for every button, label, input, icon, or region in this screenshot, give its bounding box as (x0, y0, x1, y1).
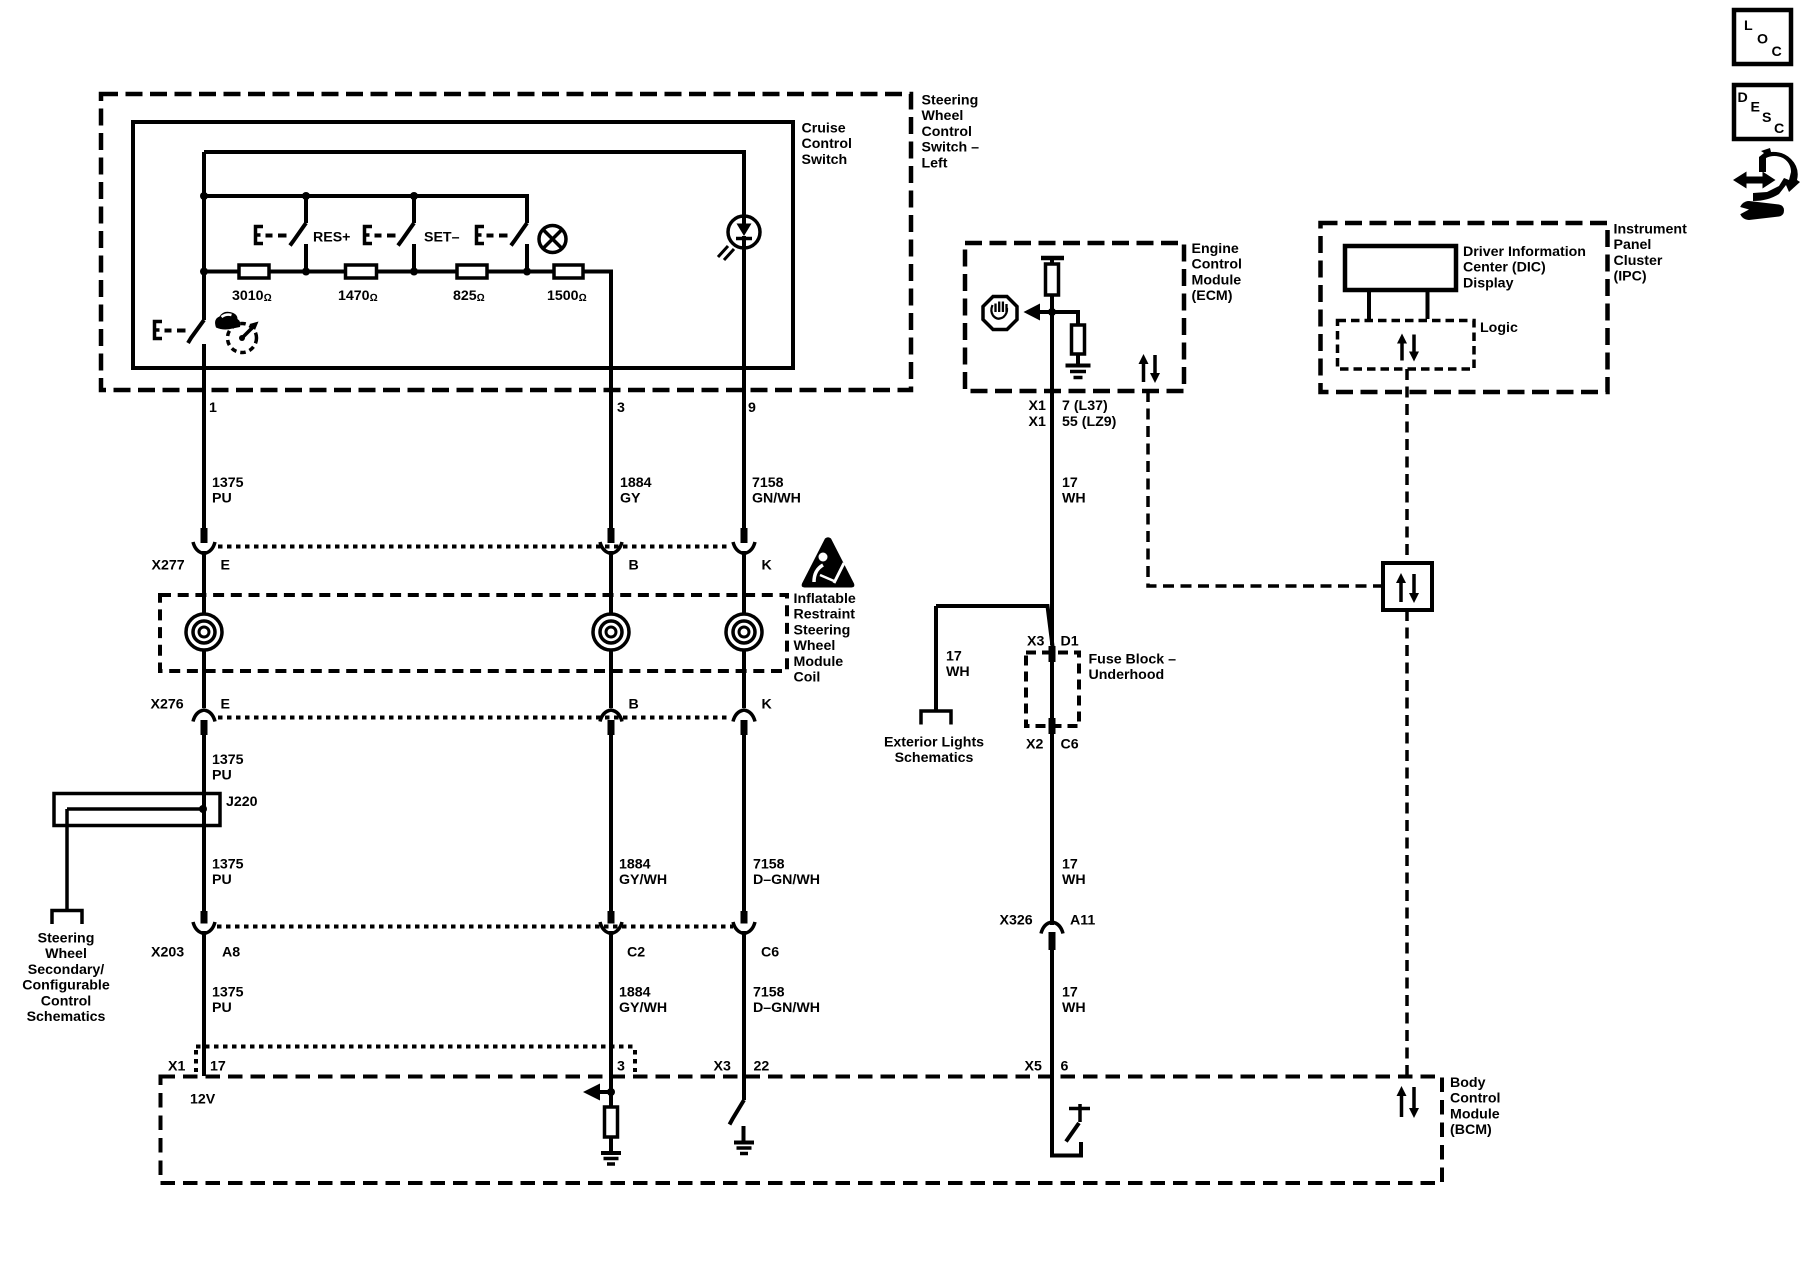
wire 1375 PU X203 to BCM (202, 931, 206, 1076)
svg-text:Exterior LightsSchematics: Exterior LightsSchematics (884, 735, 984, 767)
svg-text:K: K (762, 558, 773, 574)
svg-text:CruiseControlSwitch: CruiseControlSwitch (802, 121, 852, 168)
off-page reference to steering wheel controls (52, 911, 82, 925)
svg-text:9: 9 (748, 400, 756, 416)
svg-text:Fuse Block –Underhood: Fuse Block –Underhood (1089, 652, 1177, 684)
serial data arrows in logic box (1397, 334, 1419, 362)
coil B (clockspring) (593, 614, 629, 650)
cruise master switch (blade and pole) (188, 320, 204, 530)
switch SET- (drop, blade, pole) (398, 196, 414, 272)
wire into coil E (202, 551, 206, 614)
ground in BCM (601, 1137, 621, 1164)
wire 1884 GY/WH X276 to X203 (609, 735, 613, 912)
wire 7158 D-GN/WH X276 to X203 (742, 735, 746, 912)
resistor 1470 ohm (346, 265, 377, 278)
svg-text:J220: J220 (226, 794, 258, 810)
svg-text:E: E (221, 697, 230, 713)
serial data arrows in node box (1396, 573, 1419, 603)
signal arrow to stop symbol (1024, 304, 1053, 321)
wire 7158 D-GN/WH X203 to BCM (742, 931, 746, 1100)
switch RES+ (drop, blade, pole) (290, 196, 306, 272)
serial data node box (1383, 563, 1432, 610)
connector X277 terminal B (600, 528, 622, 554)
LED indicator (718, 216, 760, 392)
dashed box: Logic (1338, 321, 1475, 370)
dashed box: Steering Wheel Control Switch - Left (101, 94, 911, 390)
svg-text:12V: 12V (190, 1092, 216, 1108)
wire down to off-page reference (934, 606, 938, 711)
wire 17 WH fuse block to X326 (1050, 734, 1054, 925)
svg-text:7 (L37): 7 (L37) (1062, 398, 1108, 414)
svg-text:C6: C6 (761, 945, 779, 961)
connector X203 terminal A8 (193, 911, 215, 934)
connector X276 terminal K (733, 710, 755, 735)
svg-text:3: 3 (617, 1059, 625, 1075)
svg-text:RES+: RES+ (313, 230, 350, 246)
svg-text:22: 22 (754, 1059, 770, 1075)
dashed box: Instrument Panel Cluster (IPC) (1321, 223, 1608, 392)
switch to ground (BCM pin 22) (730, 1100, 745, 1125)
branch wire to exterior lights (936, 606, 1053, 650)
serial data arrows in BCM (1397, 1086, 1420, 1118)
connector X203 terminal C2 (600, 911, 622, 934)
serial data dashed line to BCM (1405, 610, 1409, 1076)
svg-text:X1: X1 (1029, 398, 1046, 414)
switch on/off E terminal glyph (477, 227, 508, 244)
splice pack J220 (54, 794, 220, 826)
wire branch from J220 (65, 809, 69, 910)
coil K (clockspring) (726, 614, 762, 650)
svg-text:55 (LZ9): 55 (LZ9) (1062, 414, 1117, 430)
navigation arrows and wrench icon (1733, 148, 1800, 220)
svg-text:X5: X5 (1025, 1059, 1042, 1075)
svg-text:B: B (629, 558, 639, 574)
serial data arrows in ECM (1139, 354, 1161, 383)
svg-text:X3: X3 (714, 1059, 731, 1075)
svg-text:C: C (1772, 44, 1782, 60)
connector X203 terminal C6 (733, 911, 755, 934)
connector line X203 (217, 925, 733, 929)
resistor 3010 ohm (239, 265, 269, 278)
switch RES+ E terminal glyph (256, 227, 287, 244)
svg-text:X277: X277 (152, 558, 185, 574)
lamp symbol (circle with X) (539, 226, 566, 253)
svg-text:6: 6 (1061, 1059, 1069, 1075)
connector line X277 (218, 545, 731, 549)
ground in ECM (1066, 366, 1091, 378)
svg-text:X276: X276 (151, 697, 184, 713)
dashed box: Body Control Module (BCM) (161, 1077, 1443, 1184)
dashed box: Engine Control Module (ECM) (965, 243, 1184, 391)
svg-text:X1: X1 (168, 1059, 185, 1075)
svg-text:C: C (1774, 121, 1784, 137)
connector X276 terminal E (193, 710, 215, 735)
connector X276 terminal B (600, 710, 622, 735)
svg-text:E: E (1751, 100, 1760, 116)
svg-text:X1: X1 (1029, 414, 1046, 430)
svg-text:17: 17 (210, 1059, 226, 1075)
svg-text:K: K (762, 697, 773, 713)
resistor 1500 ohm (554, 265, 583, 278)
branch resistor to ground in ECM (1052, 312, 1085, 364)
serial data dashed line from IPC logic (1405, 369, 1409, 563)
wire: switch bus (204, 196, 527, 223)
serial data dashed line from ECM (1148, 391, 1383, 586)
wire into coil K (742, 551, 746, 614)
svg-text:D1: D1 (1061, 634, 1079, 650)
svg-text:3: 3 (617, 400, 625, 416)
connector X277 terminal K (733, 528, 755, 554)
dashed box: steering wheel module coil (160, 595, 787, 671)
DIC display box (1345, 246, 1456, 290)
dashed box: Fuse Block - Underhood (1026, 653, 1079, 727)
DIC display pedestal (1369, 290, 1428, 319)
pull-up resistor in ECM (1046, 258, 1059, 312)
node: cruise request junction (1048, 308, 1056, 316)
svg-text:Logic: Logic (1480, 320, 1518, 336)
wire out of coil K (742, 650, 746, 708)
wire 1375 PU pin1 to X277 (202, 390, 206, 530)
svg-text:SET–: SET– (424, 230, 460, 246)
DESC navigation box (1734, 85, 1791, 139)
wire out of coil B (609, 650, 613, 708)
svg-text:A11: A11 (1070, 913, 1095, 929)
svg-text:E: E (221, 558, 230, 574)
switch X5-6 in BCM (1052, 1076, 1090, 1156)
svg-text:C6: C6 (1061, 737, 1079, 753)
wire into coil B (609, 551, 613, 614)
cruise master switch E terminal glyph (155, 322, 186, 339)
junction dots in cruise switch (200, 192, 531, 276)
wire: top feed inside cruise switch (204, 152, 744, 216)
svg-text:1: 1 (209, 400, 217, 416)
cruise control icon (car over speedometer) (215, 312, 258, 353)
signal arrow to exterior lights (BCM pin 3) (583, 1084, 615, 1101)
svg-text:A8: A8 (222, 945, 240, 961)
terminal X2 C6 of fuse block (1049, 718, 1056, 734)
connector line X276 (218, 716, 731, 720)
wire 1884 GY/WH X203 to BCM (609, 931, 613, 1092)
terminal X3 D1 of fuse block (1049, 646, 1056, 662)
coil E (clockspring) (186, 614, 222, 650)
voltage supply bar in ECM (1041, 256, 1064, 261)
solid box: Cruise Control Switch (133, 122, 793, 368)
svg-text:S: S (1762, 110, 1771, 126)
svg-text:L: L (1744, 18, 1753, 34)
wire through fuse block (1050, 662, 1054, 718)
stop lamp octagon with hand (983, 297, 1017, 330)
LOC navigation box (1734, 10, 1791, 64)
svg-text:B: B (629, 697, 639, 713)
wire: main vertical from cruise common (202, 152, 206, 320)
connector X326 terminal A11 (1041, 922, 1063, 950)
switch on/off (drop, blade, pole) (511, 223, 527, 272)
switch SET- E terminal glyph (365, 227, 396, 244)
wire: resistor chain line (204, 272, 611, 531)
svg-text:X3: X3 (1027, 634, 1044, 650)
svg-text:O: O (1757, 32, 1768, 48)
off-page reference to exterior lights (921, 711, 951, 725)
wire out of coil E (202, 650, 206, 708)
svg-text:X326: X326 (1000, 913, 1033, 929)
ground for pin 22 switch (734, 1126, 754, 1154)
svg-text:X203: X203 (151, 945, 184, 961)
wire 1884 GY pin3 to X277 (609, 390, 613, 530)
connector line X1 of BCM (196, 1047, 635, 1073)
wire 17 WH from ECM (1050, 312, 1054, 645)
connector X277 terminal E (193, 528, 215, 554)
wire 17 WH X326 to BCM (1050, 950, 1054, 1076)
resistor 825 ohm (457, 265, 487, 278)
svg-text:D: D (1738, 90, 1748, 106)
airbag caution triangle (802, 537, 855, 587)
resistor in BCM (605, 1092, 618, 1137)
wire 7158 GN/WH pin9 to X277 (742, 390, 746, 530)
svg-text:X2: X2 (1026, 737, 1043, 753)
wire 1375 PU X276 to J220 (202, 735, 206, 912)
svg-text:C2: C2 (627, 945, 645, 961)
